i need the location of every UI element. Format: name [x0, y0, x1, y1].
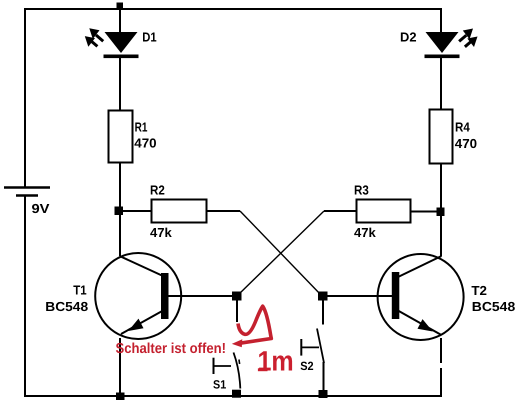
svg-text:470: 470: [134, 136, 156, 151]
switch S2: [300, 329, 324, 395]
svg-text:T1: T1: [73, 283, 86, 298]
transistor T2 BC548: [378, 254, 516, 340]
wire bottom rail: [24, 395, 442, 397]
svg-text:S2: S2: [300, 359, 314, 373]
node T1 emitter bottom junction: [116, 393, 125, 401]
node top junction: [117, 3, 124, 11]
wire left rail lower: [24, 196, 26, 397]
node T2 base junction: [318, 292, 328, 301]
svg-text:BC548: BC548: [472, 299, 515, 314]
svg-text:47k: 47k: [354, 225, 377, 240]
wire T2 base line: [322, 295, 392, 297]
resistor R1 470: [109, 111, 157, 163]
wire R4 to R3 node: [440, 163, 442, 256]
annotation red arrow squiggle: [232, 306, 271, 347]
svg-text:Schalter ist offen!: Schalter ist offen!: [116, 341, 227, 357]
wire R3 left stub: [324, 210, 357, 212]
wire node to R2: [118, 210, 151, 212]
svg-text:470: 470: [455, 136, 477, 151]
LED D1: [85, 28, 157, 58]
svg-text:R1: R1: [135, 119, 148, 134]
wire D2 cathode to R4: [440, 58, 442, 110]
svg-text:1m: 1m: [258, 346, 294, 377]
svg-text:D1: D1: [142, 29, 156, 44]
wire D1 anode: [119, 9, 121, 33]
wire cross coupling R3 to T1 base: [237, 211, 324, 296]
transistor T1 BC548: [45, 253, 181, 339]
wire top rail: [25, 8, 442, 10]
svg-text:R2: R2: [150, 183, 165, 198]
wire T1 base line: [168, 295, 237, 297]
node R3 right junction: [437, 208, 445, 217]
wire R1 to R2 node: [119, 163, 121, 256]
resistor R3 47k: [354, 183, 411, 241]
wire cross coupling R2 to T2 base: [240, 211, 322, 296]
wire S2 top: [322, 296, 324, 325]
svg-text:S1: S1: [213, 377, 226, 391]
wire left rail upper: [24, 8, 26, 187]
battery 9V: [4, 188, 50, 216]
wire D2 anode: [440, 9, 442, 33]
node T1 base junction: [232, 292, 242, 301]
node S2 bottom junction: [319, 390, 328, 398]
wire T2 emitter down lower: [440, 368, 442, 397]
resistor R4 470: [430, 110, 478, 164]
svg-text:BC548: BC548: [45, 299, 88, 314]
wire S1 top: [236, 296, 238, 322]
svg-text:D2: D2: [400, 29, 417, 44]
resistor R2 47k: [150, 183, 207, 241]
svg-text:R4: R4: [455, 119, 470, 134]
svg-text:47k: 47k: [150, 225, 173, 240]
wire R2 right stub: [206, 210, 240, 212]
node R2 left junction: [115, 207, 124, 216]
svg-text:R3: R3: [354, 183, 369, 198]
wire T2 emitter down: [440, 338, 442, 363]
wire T1 emitter down: [119, 338, 121, 396]
switch S1: [213, 353, 240, 392]
LED D2: [400, 29, 478, 59]
wire R3 to right rail: [410, 211, 441, 213]
wire D1 cathode to R1: [119, 58, 121, 110]
node S1 bottom junction: [232, 390, 241, 398]
svg-text:9V: 9V: [32, 201, 50, 216]
svg-text:T2: T2: [471, 283, 487, 298]
